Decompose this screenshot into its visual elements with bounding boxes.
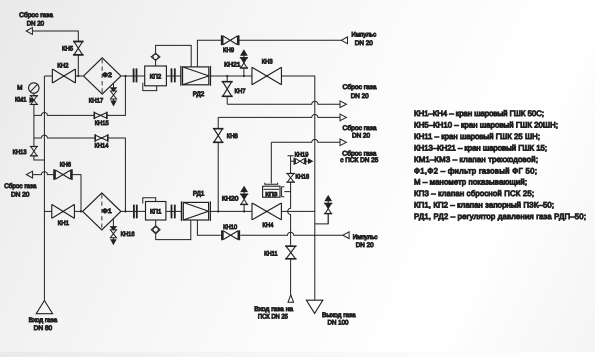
legend text block (414, 109, 586, 221)
label Вход газа на ПСК DN 25 (254, 306, 293, 320)
node КН5 tee (77, 75, 79, 77)
label КН14 (95, 143, 109, 150)
node Вход газа на ПСК inlet triangle (288, 295, 294, 303)
regulator РД1 (181, 201, 210, 221)
svg-text:КН5: КН5 (62, 45, 73, 52)
drain valve КН17 (110, 83, 116, 105)
label КП3 (265, 192, 277, 198)
node Импульс DN 20 bottom arrow (343, 232, 349, 239)
label Сброс газа DN 20 right-1 (343, 84, 377, 100)
vent valve after КН4 (свеча) (324, 196, 332, 224)
label Ф2 (102, 72, 112, 79)
node Сброс газа DN 20 top-left arrow (26, 28, 32, 35)
svg-text:КН13: КН13 (13, 149, 27, 156)
node КН6 tee bottom (80, 210, 82, 212)
wire bottom main line Ф1-КП1 (121, 210, 146, 212)
wire КН15 bypass line (34, 76, 126, 115)
valve КН11 (285, 246, 296, 259)
wire top main line КП2-РД2 (166, 75, 180, 77)
valve КН2 (52, 69, 75, 83)
valve КН13 (30, 147, 38, 156)
label Импульс DN 20 top (351, 31, 376, 47)
svg-text:КН17: КН17 (89, 98, 104, 105)
wire vent header to Сброс газа DN 20 (top-left) (32, 31, 78, 76)
wire main inlet riser (43, 76, 45, 300)
node КН15 tee top (124, 75, 126, 77)
flange pair before КП1 (134, 205, 137, 219)
svg-text:КМ1–КМ3 – клапан трехходовой;: КМ1–КМ3 – клапан трехходовой; (414, 155, 538, 164)
svg-text:КН20: КН20 (222, 196, 239, 203)
node Импульс DN 20 top arrow (341, 37, 347, 44)
valve КН10 (222, 230, 239, 240)
label КН5 (62, 45, 73, 52)
manometer М (29, 83, 39, 93)
svg-text:КН18: КН18 (295, 173, 309, 180)
svg-text:DN 20: DN 20 (27, 21, 45, 28)
svg-text:КН16: КН16 (121, 231, 135, 238)
svg-text:КН2: КН2 (57, 62, 69, 69)
label КН3 (262, 59, 273, 66)
label Выход газа DN 100 (322, 312, 356, 327)
label КН2 (57, 62, 69, 69)
shut-off valve КП2 (143, 53, 167, 90)
wire top main line after КН3 (282, 76, 315, 300)
svg-text:DN 100: DN 100 (328, 320, 349, 327)
filter Ф1 (83, 193, 121, 230)
label КН19 (295, 152, 309, 159)
wire bottom main line РД1-КН4 (210, 210, 252, 212)
wire КН19 blowdown stub (291, 160, 295, 162)
svg-text:КН21: КН21 (224, 61, 241, 68)
svg-text:Сброс газа: Сброс газа (4, 183, 37, 190)
svg-text:КН3: КН3 (262, 59, 273, 66)
wire bottom main line riser-КН1 (44, 210, 51, 212)
svg-text:Сброс газа: Сброс газа (343, 125, 377, 132)
node Вход газа DN 80 inlet triangle (36, 301, 52, 314)
svg-text:КН11 – кран шаровый ГШК 25 ШН;: КН11 – кран шаровый ГШК 25 ШН; (414, 132, 540, 141)
svg-text:КН1–КН4 – кран шаровый ГШК 50С: КН1–КН4 – кран шаровый ГШК 50С; (414, 109, 544, 118)
wire top main line riser-КН2 (44, 75, 52, 77)
flange pair after КП2 (172, 68, 175, 82)
svg-text:КН4: КН4 (262, 222, 273, 229)
svg-text:Импульс: Импульс (353, 234, 378, 241)
svg-text:КН7: КН7 (235, 88, 246, 95)
valve КН7 (222, 82, 233, 97)
svg-text:КП1, КП2 – клапан запорный ПЗК: КП1, КП2 – клапан запорный ПЗК–50; (414, 201, 554, 210)
wire top main line Ф2-КП2 (121, 75, 145, 77)
svg-text:Ф2: Ф2 (102, 72, 112, 79)
label КН21 (224, 61, 241, 68)
label Сброс газа DN 20 left (4, 183, 37, 199)
svg-text:КП1: КП1 (150, 209, 162, 216)
svg-text:КН19: КН19 (295, 152, 309, 159)
label Сброс газа DN 20 top-left (19, 12, 53, 28)
label Сброс газа DN 20 right-2 (343, 125, 377, 140)
label КН6 (60, 162, 72, 169)
wire КП3 to КН18 line link (282, 187, 291, 197)
wire vent after КН4 (315, 214, 328, 224)
svg-text:КП3: КП3 (265, 192, 277, 198)
label М (17, 84, 22, 91)
valve КН1 (52, 204, 75, 218)
svg-text:КМ1: КМ1 (15, 97, 27, 104)
svg-text:DN 20: DN 20 (351, 93, 369, 100)
node Выход газа DN 100 outlet triangle (306, 300, 322, 313)
wire КП1 impulse line (156, 220, 191, 240)
wire bottom main line КП1-РД1 (166, 210, 182, 212)
wire bottom main line after КН4 (281, 210, 314, 212)
label КН10 (223, 224, 237, 231)
wire Сброс газа line 1 to arrow (227, 101, 340, 104)
svg-text:РД1, РД2 – регулятор давления: РД1, РД2 – регулятор давления газа РДП–5… (414, 212, 586, 221)
svg-text:DN 20: DN 20 (352, 133, 370, 140)
label РД2 (193, 91, 205, 98)
svg-text:Вход газа: Вход газа (29, 317, 58, 324)
flange pair after КП1 (172, 205, 175, 219)
svg-text:Ф1,Ф2 – фильтр газовый ФГ 50;: Ф1,Ф2 – фильтр газовый ФГ 50; (414, 166, 537, 175)
wire top main line КН2-Ф2 (75, 75, 83, 77)
wire top main line РД2-КН3 (211, 75, 253, 77)
svg-text:Вход газа на: Вход газа на (254, 306, 293, 313)
valve КН3 (252, 67, 282, 85)
svg-text:Сброс газа: Сброс газа (343, 84, 377, 91)
svg-text:М – манометр показывающий;: М – манометр показывающий; (414, 178, 527, 187)
svg-text:Импульс: Импульс (351, 31, 376, 38)
svg-text:РД2: РД2 (193, 91, 205, 98)
flange pair before КП2 (134, 68, 137, 82)
relief valve КП3 (263, 183, 280, 198)
label КН17 (89, 98, 104, 105)
label Сброс газа с ПСК DN 25 (340, 150, 378, 164)
svg-text:КН8: КН8 (227, 133, 238, 140)
label КН16 (121, 231, 135, 238)
node КН14 tee bottom (124, 210, 126, 212)
wire КП3 relief line (270, 142, 272, 183)
svg-text:КН1: КН1 (58, 220, 70, 227)
node КН20 tee (243, 210, 245, 212)
node КН8 tee (217, 210, 219, 212)
label КН1 (58, 220, 70, 227)
node Сброс газа с ПСК arrow (340, 139, 346, 146)
valve КН6 (54, 169, 72, 180)
valve КН8 (213, 129, 224, 143)
label КП2 (150, 74, 162, 81)
valve КН15 (94, 112, 107, 119)
svg-text:КН15: КН15 (95, 120, 109, 127)
svg-text:КП3 – клапан сбросной ПСК 25;: КП3 – клапан сбросной ПСК 25; (414, 189, 534, 198)
wire КП2 impulse line (156, 45, 192, 67)
svg-text:DN 20: DN 20 (356, 242, 374, 249)
wire КН7 relief drop (226, 76, 228, 104)
wire КН18 vent line (288, 156, 294, 295)
label КН18 (295, 173, 309, 180)
svg-text:ПСК DN 25: ПСК DN 25 (258, 313, 288, 320)
svg-text:с ПСК DN 25: с ПСК DN 25 (340, 157, 378, 164)
label КН8 (227, 133, 238, 140)
svg-text:КН6: КН6 (60, 162, 72, 169)
shut-off valve КП1 (143, 198, 166, 234)
svg-text:Ф1: Ф1 (102, 208, 112, 215)
label Вход газа DN 80 (29, 317, 58, 332)
svg-text:КН14: КН14 (95, 143, 109, 150)
svg-text:КН10: КН10 (223, 224, 237, 231)
valve КН5 (73, 42, 84, 55)
label КН20 (222, 196, 239, 203)
node КН7 tee (226, 75, 228, 77)
node КН21 tee (243, 75, 245, 77)
wire Сброс газа line 2 to arrow (218, 115, 340, 118)
valve КН4 (252, 203, 281, 220)
wire КН8 relief riser (217, 117, 219, 211)
drain valve КН16 (110, 219, 116, 245)
valve КН18 (286, 174, 295, 183)
label КН9 (223, 47, 234, 54)
label Ф1 (102, 208, 112, 215)
wire manometer impulse line (34, 93, 45, 160)
three-way valve КМ1 (30, 96, 38, 105)
svg-text:Сброс газа: Сброс газа (19, 12, 53, 19)
svg-text:КН11: КН11 (264, 251, 278, 258)
valve КН9 (222, 35, 239, 45)
svg-text:М: М (17, 84, 22, 91)
wire bottom main line КН1-Ф1 (75, 210, 83, 212)
valve КН19 (294, 158, 312, 165)
label КП1 (150, 209, 162, 216)
label Импульс DN 20 bottom (353, 234, 378, 249)
svg-text:DN 20: DN 20 (11, 192, 30, 199)
vent valve КН21 (240, 50, 248, 76)
svg-text:КН13–КН21 – кран шаровый ГШК 1: КН13–КН21 – кран шаровый ГШК 15; (414, 143, 547, 152)
wire КН14 bypass line (34, 135, 126, 211)
svg-text:Выход газа: Выход газа (322, 312, 356, 319)
wire КН6 purge line (33, 172, 82, 212)
label КН7 (235, 88, 246, 95)
node Сброс газа arrow 2 (340, 114, 346, 121)
wire КН9 impulse header (197, 40, 341, 67)
label РД1 (193, 190, 205, 197)
svg-text:КН5–КН10 – кран шаровый ГШК 20: КН5–КН10 – кран шаровый ГШК 20ШН; (414, 120, 558, 129)
regulator РД2 (181, 66, 211, 86)
node Сброс газа DN 20 left arrow (26, 171, 32, 178)
svg-text:DN 80: DN 80 (34, 325, 53, 332)
filter Ф2 (84, 58, 121, 94)
svg-text:DN 20: DN 20 (355, 40, 373, 47)
vent valve КН20 (240, 187, 248, 212)
wire КН10 impulse line (197, 220, 343, 235)
label КН4 (262, 222, 273, 229)
label КН13 (13, 149, 27, 156)
svg-text:КП2: КП2 (150, 74, 162, 81)
node Сброс газа arrow 1 (340, 101, 346, 108)
wire Сброс газа ПСК line to arrow (271, 139, 340, 142)
label КН11 (264, 251, 278, 258)
svg-text:КН9: КН9 (223, 47, 234, 54)
label КМ1 (15, 97, 27, 104)
label КН15 (95, 120, 109, 127)
svg-text:РД1: РД1 (193, 190, 205, 197)
valve КН14 (95, 134, 108, 141)
